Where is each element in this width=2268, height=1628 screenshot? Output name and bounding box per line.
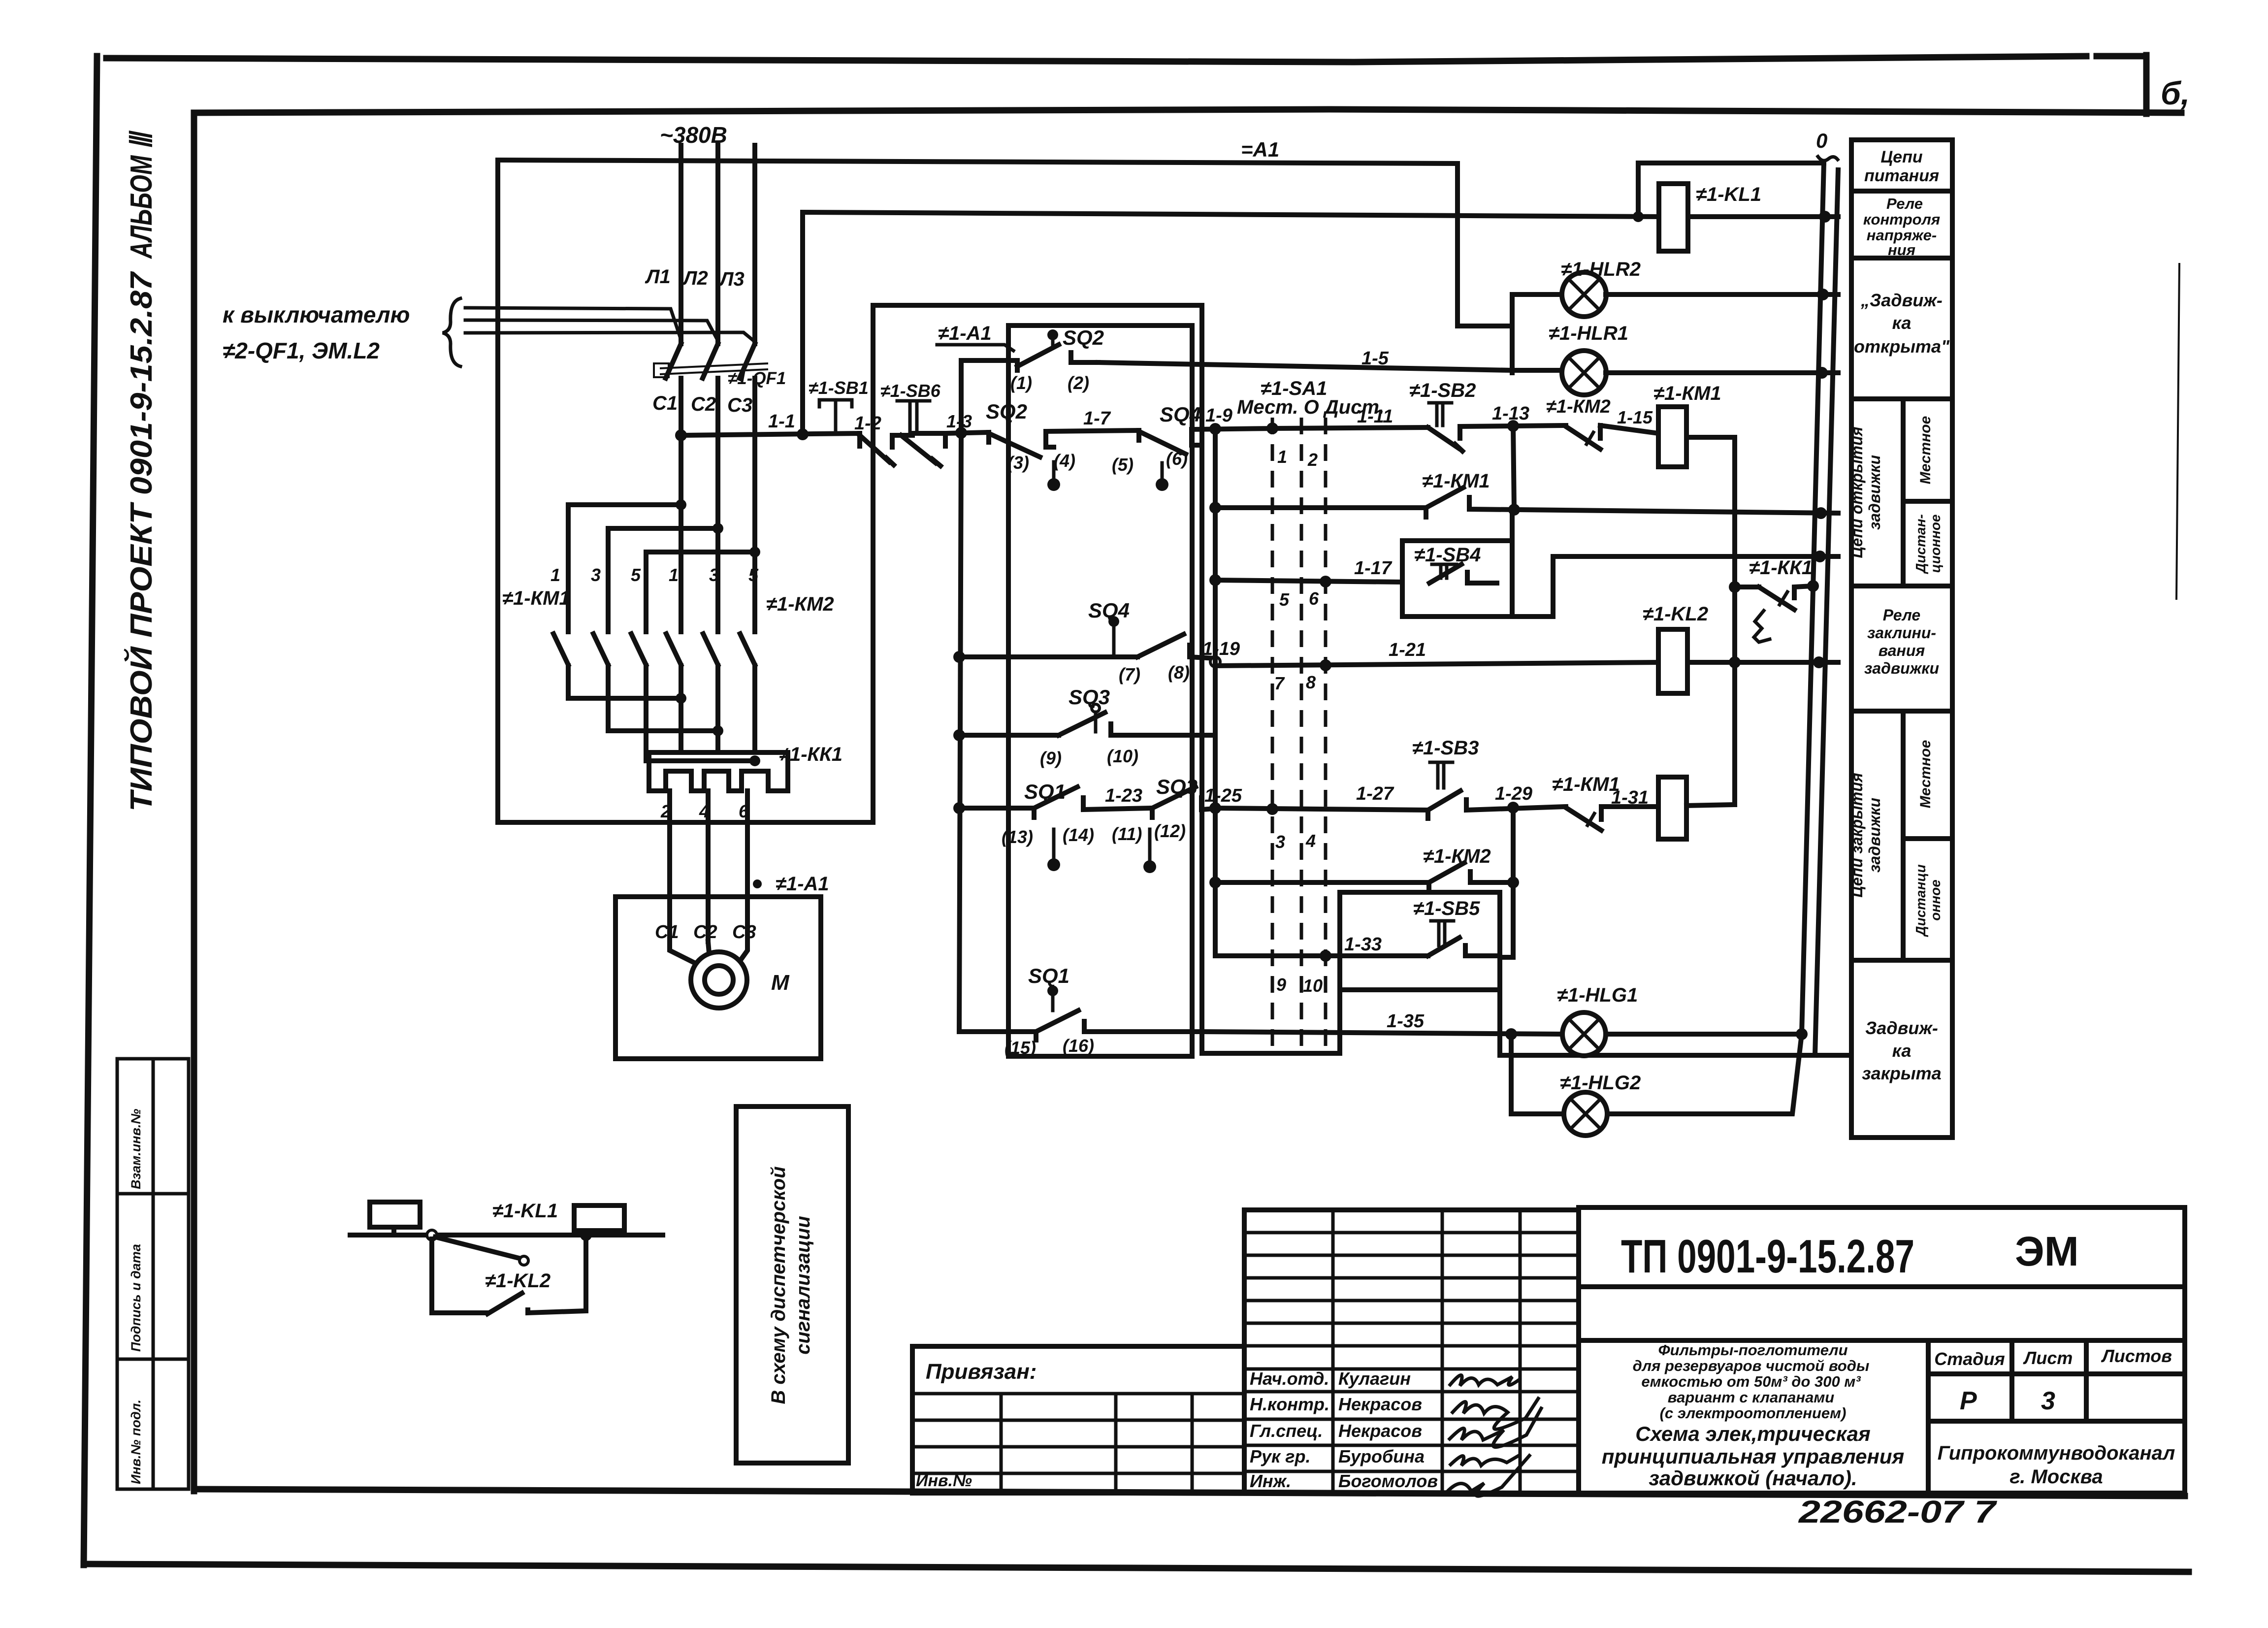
- limit switch SQ4 row blade: [1139, 430, 1199, 454]
- KM2 aux row: [1215, 880, 1429, 885]
- SA1 dashed line 2: [1300, 418, 1303, 1048]
- svg-text:Дистан-ционное: Дистан-ционное: [1913, 514, 1943, 574]
- svg-text:1: 1: [669, 565, 679, 585]
- SQ2 bypass riser: [961, 360, 1017, 433]
- feeder wire 3: [465, 332, 755, 342]
- svg-text:(9): (9): [1040, 748, 1062, 768]
- phase line L2: [715, 145, 720, 344]
- limit switch SQ2 top: [1017, 329, 1098, 370]
- row 1-25 wire: [1215, 808, 1428, 810]
- svg-text:Местное: Местное: [1917, 416, 1934, 485]
- svg-text:SQ4: SQ4: [1160, 403, 1201, 426]
- right title block grid: [1579, 1207, 2185, 1493]
- SB4 box: [1402, 541, 1512, 617]
- phase C1 down: [679, 505, 683, 632]
- lamp HLR2 wire right: [1606, 292, 1838, 297]
- svg-text:С1: С1: [652, 392, 678, 414]
- svg-text:SQ1: SQ1: [1024, 780, 1066, 804]
- node HLR1 rail: [1816, 367, 1828, 379]
- svg-text:1-17: 1-17: [1354, 558, 1393, 579]
- KM1 pole2 vertical: [606, 528, 611, 632]
- thermal relay KK1: [649, 752, 788, 791]
- signal bus: [350, 1233, 663, 1237]
- motor terminal labels: [655, 922, 756, 943]
- svg-text:1-23: 1-23: [1105, 785, 1142, 806]
- svg-text:С1: С1: [655, 922, 679, 943]
- svg-text:Задвиж-: Задвиж-: [1865, 1018, 1938, 1038]
- lamp HLG1: [1562, 1012, 1606, 1056]
- inner frame bottom: [194, 1489, 2185, 1496]
- svg-text:≠1-А1: ≠1-А1: [938, 323, 992, 344]
- main rail segment 3: [945, 432, 989, 433]
- svg-text:≠1-А1: ≠1-А1: [776, 873, 829, 895]
- wire A1 top rail: [498, 160, 1458, 163]
- node row23 feed: [953, 802, 965, 814]
- node 1-17 left: [1209, 574, 1221, 586]
- outer border top right piece: [2097, 53, 2146, 60]
- svg-text:5: 5: [748, 565, 759, 585]
- svg-text:9: 9: [1276, 975, 1286, 995]
- svg-text:(3): (3): [1007, 453, 1029, 473]
- SB5 out drop: [1500, 990, 1850, 1055]
- svg-text:1-7: 1-7: [1083, 408, 1111, 429]
- svg-text:Некрасов: Некрасов: [1338, 1421, 1422, 1441]
- KM2 out2: [715, 666, 720, 752]
- svg-text:1-21: 1-21: [1389, 640, 1426, 660]
- SB5 box: [1340, 892, 1500, 990]
- jumper KM1 pole3: [646, 550, 755, 554]
- svg-text:1-2: 1-2: [854, 413, 881, 434]
- node e1: [676, 693, 686, 704]
- svg-text:Л1: Л1: [645, 266, 671, 288]
- contact KK1 NC: [1729, 581, 1812, 642]
- limit switch SQ3 low blade: [1152, 787, 1215, 817]
- svg-text:ка: ка: [1892, 1041, 1912, 1061]
- svg-text:1-27: 1-27: [1356, 783, 1394, 804]
- svg-text:(11): (11): [1112, 824, 1142, 844]
- svg-text:≠1-KL1: ≠1-KL1: [1696, 184, 1761, 205]
- node hlg1 left: [1505, 1028, 1517, 1040]
- svg-text:Местное: Местное: [1917, 740, 1934, 809]
- motor lead 3: [738, 942, 747, 964]
- svg-text:к выключателю: к выключателю: [223, 302, 410, 327]
- relay coil KL1: [1659, 184, 1838, 251]
- contact KM2 aux NO: [1429, 863, 1513, 891]
- motor box: [616, 897, 821, 1059]
- node rail 1-1: [797, 428, 809, 440]
- table text rele zaklinivaniya: [1864, 606, 1939, 677]
- stub dot a: [1047, 462, 1060, 491]
- node kl1 pivot: [427, 1230, 437, 1240]
- inner enclosure box: [1008, 326, 1192, 1056]
- breaker QF1 blade 1: [666, 344, 681, 378]
- stub rect2: [597, 1231, 602, 1235]
- svg-text:≠1-КК1: ≠1-КК1: [1749, 557, 1813, 579]
- svg-text:≠1-HLG1: ≠1-HLG1: [1557, 984, 1638, 1006]
- limit switch SQ4 mid: [959, 616, 1215, 658]
- svg-text:Некрасов: Некрасов: [1338, 1394, 1422, 1414]
- lamp HLG2: [1564, 1092, 1607, 1136]
- button SB4: [1429, 564, 1497, 583]
- svg-text:≠1-KL2: ≠1-KL2: [485, 1270, 551, 1292]
- rail segment 1-13: [1460, 425, 1566, 426]
- node kl2 right: [580, 1229, 592, 1241]
- KM1 out3: [646, 666, 755, 761]
- inner frame top: [194, 109, 2181, 113]
- rail A: [1802, 163, 1824, 1034]
- svg-text:≠1-SB3: ≠1-SB3: [1412, 737, 1479, 759]
- pole C1: [679, 378, 683, 505]
- svg-text:22662-07 7: 22662-07 7: [1798, 1494, 1998, 1530]
- svg-text:≠1-KL2: ≠1-KL2: [1643, 603, 1708, 625]
- phase C3 down: [752, 552, 757, 632]
- svg-text:≠1-SB1: ≠1-SB1: [809, 378, 869, 398]
- svg-text:(4): (4): [1054, 451, 1075, 471]
- svg-text:≠1-SB2: ≠1-SB2: [1409, 380, 1476, 401]
- svg-text:Рук гр.: Рук гр.: [1250, 1446, 1311, 1466]
- svg-text:открыта": открыта": [1854, 336, 1950, 357]
- KM2 out1: [679, 666, 683, 752]
- svg-text:Гипрокоммунводоканал: Гипрокоммунводоканал: [1938, 1442, 2175, 1464]
- svg-text:емкостью от 50м³ до 300 м³: емкостью от 50м³ до 300 м³: [1641, 1373, 1861, 1390]
- svg-text:1: 1: [551, 565, 560, 585]
- node d1: [676, 499, 686, 510]
- svg-text:≠1-КМ2: ≠1-КМ2: [1423, 846, 1491, 867]
- svg-text:≠1-SB6: ≠1-SB6: [880, 381, 941, 401]
- stub rect1: [391, 1227, 396, 1235]
- button SB5: [1428, 921, 1500, 956]
- signature names: [1250, 1368, 1438, 1491]
- node HLR2 rail: [1817, 289, 1829, 300]
- node KK1 rail: [1807, 580, 1819, 592]
- main rail segment 1: [681, 433, 860, 435]
- motor inner: [705, 966, 733, 994]
- svg-text:Инв.№: Инв.№: [916, 1471, 972, 1490]
- svg-text:1-1: 1-1: [768, 411, 795, 432]
- svg-text:10: 10: [1303, 976, 1323, 996]
- svg-text:3: 3: [2041, 1387, 2055, 1415]
- label 1-A1 with arrow: [937, 323, 1013, 351]
- lamp HLG2 wire right: [1608, 1034, 1802, 1114]
- breaker QF1 blade 2: [703, 344, 718, 378]
- svg-text:SQ4: SQ4: [1088, 599, 1130, 622]
- relay coil KL2: [1658, 629, 1838, 693]
- svg-text:Реле: Реле: [1883, 606, 1920, 624]
- table text zadvizhka zakryta: [1862, 1018, 1941, 1083]
- svg-text:(5): (5): [1112, 455, 1134, 475]
- contact KM2 NC: [1566, 425, 1600, 449]
- SECTION: bottomleft: [350, 1107, 848, 1463]
- KL2 loop: [432, 1239, 487, 1313]
- node d2: [713, 523, 723, 534]
- node 1-33 dash: [1320, 950, 1331, 962]
- contact KM1 NC low: [1566, 807, 1601, 830]
- box A outline: [498, 160, 873, 822]
- feeder wire 2: [465, 320, 718, 341]
- motor M: [691, 952, 747, 1008]
- svg-text:3: 3: [1275, 832, 1285, 852]
- node km1aux mid: [1508, 504, 1520, 516]
- svg-text:≠1-КМ2: ≠1-КМ2: [766, 593, 834, 615]
- svg-text:(с электроотоплением): (с электроотоплением): [1660, 1404, 1847, 1422]
- svg-text:Фильтры-поглотители: Фильтры-поглотители: [1658, 1341, 1847, 1359]
- svg-text:С2: С2: [691, 393, 716, 415]
- svg-text:=А1: =А1: [1241, 138, 1279, 161]
- svg-text:Кулагин: Кулагин: [1338, 1368, 1411, 1389]
- table text zadvizhka otkryta: [1854, 290, 1950, 357]
- description small: [1633, 1341, 1870, 1422]
- node rail C1: [675, 429, 687, 441]
- svg-text:Л2: Л2: [682, 267, 708, 289]
- stamp cells column: [117, 1059, 189, 1489]
- svg-text:SQ3: SQ3: [1069, 685, 1110, 709]
- node hlg1 rail: [1796, 1028, 1808, 1040]
- svg-text:Гл.спец.: Гл.спец.: [1250, 1421, 1323, 1441]
- node 1-9: [1209, 423, 1221, 435]
- KK1 out1: [667, 791, 672, 942]
- SECTION: midbox: [873, 305, 1735, 1058]
- lamp HLR2: [1562, 272, 1606, 317]
- svg-text:ТИПОВОЙ ПРОЕКТ 0901-9-15.2.87: ТИПОВОЙ ПРОЕКТ 0901-9-15.2.87: [124, 271, 159, 812]
- KK1 out3: [745, 791, 750, 942]
- pole C3: [752, 378, 757, 552]
- button SB3: [1428, 762, 1566, 818]
- svg-text:1-19: 1-19: [1202, 639, 1240, 659]
- svg-text:С2: С2: [693, 922, 717, 943]
- svg-text:≠1-КМ2: ≠1-КМ2: [1546, 396, 1611, 417]
- svg-text:1-25: 1-25: [1204, 785, 1242, 806]
- svg-text:2: 2: [1307, 450, 1318, 470]
- svg-text:1-15: 1-15: [1617, 407, 1653, 427]
- org name: [1938, 1442, 2175, 1488]
- top box over KL1: [1638, 163, 1824, 217]
- jumper KM1 pole2: [608, 526, 718, 531]
- node 1-17 dash: [1320, 576, 1331, 587]
- svg-text:SQ2: SQ2: [986, 400, 1027, 423]
- svg-text:SQ3: SQ3: [1156, 775, 1198, 799]
- SECTION: railstable: [1802, 129, 1952, 1138]
- node d3: [749, 547, 760, 557]
- KM1 contact blade2: [593, 634, 608, 665]
- KM1 pole1 vertical: [566, 505, 571, 632]
- svg-text:вариант с клапанами: вариант с клапанами: [1668, 1389, 1835, 1406]
- SB4 out jog: [1512, 556, 1838, 617]
- node e2: [713, 725, 723, 736]
- svg-text:≠1-КМ1: ≠1-КМ1: [1552, 774, 1620, 795]
- svg-text:принципиальная управления: принципиальная управления: [1602, 1445, 1905, 1468]
- KM1 out1: [568, 666, 681, 698]
- KM2 contact blade2: [703, 634, 718, 665]
- node km2aux left: [1209, 877, 1221, 888]
- scheme title: [1602, 1422, 1905, 1490]
- svg-text:Р: Р: [1960, 1387, 1977, 1415]
- lamp HLR1 wire right: [1606, 370, 1838, 375]
- svg-text:Листов: Листов: [2101, 1346, 2172, 1366]
- signature squiggles: [1447, 1375, 1541, 1496]
- outer border bottom: [84, 1564, 2189, 1572]
- svg-text:4: 4: [1305, 831, 1316, 851]
- wire 1-33 row: [1215, 954, 1428, 956]
- KM2 out3: [752, 666, 757, 752]
- SECTION: power: [223, 122, 1512, 1059]
- rail B zero bus: [1815, 170, 1838, 1055]
- svg-text:(16): (16): [1063, 1036, 1094, 1056]
- stub dot b: [1156, 463, 1168, 491]
- brace: [443, 298, 460, 366]
- feeder wire 1: [465, 308, 681, 340]
- limit switch SQ2 row blade: [989, 432, 1054, 457]
- contact KL2: [487, 1235, 586, 1314]
- node SA1 c1: [1266, 423, 1278, 434]
- svg-text:1-11: 1-11: [1357, 406, 1393, 427]
- svg-text:г. Москва: г. Москва: [2009, 1466, 2103, 1488]
- terminal rect 2: [574, 1205, 624, 1231]
- contactor coil KM1: [1658, 407, 1735, 805]
- inner frame left: [191, 113, 197, 1491]
- dispatcher box: [736, 1107, 848, 1463]
- svg-text:Стадия: Стадия: [1934, 1349, 2005, 1369]
- svg-text:(1): (1): [1010, 373, 1032, 393]
- row 1-23 line: [959, 806, 1034, 811]
- button SB6: [897, 401, 945, 466]
- limit switch SQ3 mid: [959, 704, 1215, 735]
- svg-text:Инж.: Инж.: [1250, 1471, 1291, 1491]
- svg-text:С3: С3: [732, 922, 756, 943]
- svg-text:≠1-КМ1: ≠1-КМ1: [502, 587, 570, 609]
- node km1aux rail: [1815, 507, 1827, 519]
- node SQ3 mid feed: [953, 729, 965, 741]
- left attach box: [912, 1346, 1244, 1493]
- svg-text:SQ1: SQ1: [1028, 964, 1069, 988]
- svg-text:≠1-KL1: ≠1-KL1: [492, 1200, 558, 1222]
- KM1 aux row: [1215, 505, 1426, 510]
- KM2 contact blade1: [666, 634, 681, 665]
- svg-text:ния: ния: [1888, 241, 1915, 259]
- node 1-13: [1507, 420, 1519, 432]
- svg-text:≠1-КК1: ≠1-КК1: [779, 744, 842, 765]
- svg-text:Взам.инв.№: Взам.инв.№: [129, 1109, 143, 1189]
- KL line vertical: [803, 212, 1659, 434]
- KK1 out2: [706, 791, 711, 942]
- KM1 out2: [608, 666, 718, 731]
- node rail 1-3: [955, 427, 967, 439]
- jumper KM1 pole1: [568, 502, 681, 507]
- main rail segment 2: [892, 433, 945, 435]
- node sb4 rail: [1814, 551, 1826, 562]
- rail segment 1-7: [1046, 430, 1139, 431]
- svg-text:Н.контр.: Н.контр.: [1250, 1394, 1329, 1414]
- svg-text:0: 0: [1816, 129, 1827, 152]
- svg-text:Л3: Л3: [718, 268, 745, 290]
- svg-text:закрыта: закрыта: [1862, 1063, 1941, 1083]
- svg-text:Инв.№ подл.: Инв.№ подл.: [129, 1400, 143, 1484]
- svg-text:вания: вания: [1879, 642, 1925, 659]
- svg-text:б,: б,: [2161, 75, 2190, 111]
- svg-text:1-13: 1-13: [1492, 403, 1529, 424]
- svg-text:≠1-SB5: ≠1-SB5: [1413, 898, 1480, 919]
- svg-text:Буробина: Буробина: [1338, 1446, 1425, 1466]
- svg-text:Богомолов: Богомолов: [1338, 1471, 1438, 1491]
- node KL1 tap: [1633, 211, 1644, 222]
- svg-text:8: 8: [1306, 672, 1316, 692]
- node km1aux left: [1209, 502, 1221, 514]
- svg-text:(12): (12): [1154, 821, 1186, 841]
- phase line L3: [752, 145, 757, 344]
- svg-text:ка: ка: [1892, 313, 1912, 333]
- feed vertical 1948: [959, 433, 961, 1032]
- middle signature grid: [1244, 1210, 1579, 1493]
- svg-text:(15): (15): [1004, 1038, 1036, 1058]
- svg-text:(7): (7): [1119, 664, 1140, 684]
- lamp HLG1 wire right: [1607, 1032, 1802, 1037]
- drop to HLG2: [1511, 1034, 1563, 1114]
- svg-text:(2): (2): [1068, 373, 1089, 393]
- node KL2 vert: [1729, 656, 1741, 668]
- svg-text:5: 5: [1279, 589, 1290, 610]
- svg-text:задвижкой (начало).: задвижкой (начало).: [1649, 1466, 1857, 1490]
- node KL2 rail: [1813, 656, 1825, 668]
- rail to 1-9: [1192, 428, 1272, 429]
- zero squiggle: [1818, 157, 1838, 161]
- svg-text:задвижки: задвижки: [1864, 659, 1939, 677]
- svg-text:С3: С3: [727, 394, 752, 416]
- button SB1: [819, 400, 894, 465]
- node e3: [749, 755, 760, 766]
- svg-text:(10): (10): [1107, 746, 1138, 766]
- wire drop 1-9 branch: [1213, 429, 1218, 954]
- svg-text:1-35: 1-35: [1387, 1011, 1425, 1032]
- svg-text:7: 7: [1274, 673, 1285, 693]
- node 1-25: [1209, 802, 1221, 814]
- svg-text:3: 3: [709, 565, 719, 585]
- svg-text:Нач.отд.: Нач.отд.: [1250, 1368, 1329, 1389]
- svg-text:≠2-QF1, ЭМ.L2: ≠2-QF1, ЭМ.L2: [223, 338, 380, 363]
- svg-text:1: 1: [1277, 447, 1287, 467]
- svg-text:(8): (8): [1168, 662, 1190, 683]
- SA1 dashed line 3: [1324, 418, 1328, 1048]
- outer enclosure box: [873, 305, 1340, 1053]
- node 1-19 circle: [1210, 657, 1220, 667]
- KM1 pole3 vertical: [644, 552, 648, 632]
- svg-text:5: 5: [631, 565, 641, 585]
- motor lead 1: [670, 942, 701, 966]
- table text rele kontrolya: [1863, 195, 1940, 259]
- phase C2 down: [715, 528, 720, 632]
- SECTION: rightrows: [1202, 426, 1850, 1136]
- svg-text:„Задвиж-: „Задвиж-: [1860, 290, 1943, 310]
- svg-text:Лист: Лист: [2023, 1348, 2073, 1368]
- SECTION: titleblock: [912, 1207, 2185, 1530]
- svg-text:ТП 0901-9-15.2.87: ТП 0901-9-15.2.87: [1621, 1230, 1914, 1283]
- svg-text:(14): (14): [1063, 825, 1094, 845]
- KM1 contact blade1: [553, 634, 568, 665]
- svg-text:≠1-HLR1: ≠1-HLR1: [1549, 323, 1628, 344]
- limit switch SQ1 bottom: [959, 985, 1202, 1040]
- node KL1 rail: [1819, 211, 1831, 223]
- wire 1-21 row: [1215, 662, 1658, 666]
- svg-text:≠1-КМ1: ≠1-КМ1: [1653, 383, 1721, 404]
- phase line L1: [679, 145, 683, 344]
- svg-text:≠1-HLR2: ≠1-HLR2: [1561, 259, 1641, 280]
- outer border corner tick: [2143, 55, 2150, 114]
- outer border top: [106, 56, 2086, 62]
- right margin dash line: [2176, 263, 2179, 600]
- outer border left: [84, 56, 97, 1565]
- svg-text:Реле: Реле: [1886, 195, 1923, 212]
- wire 1-35 row: [1202, 1032, 1561, 1034]
- pole numbers 135135: [551, 565, 759, 585]
- svg-text:≠1-КМ1: ≠1-КМ1: [1422, 470, 1490, 492]
